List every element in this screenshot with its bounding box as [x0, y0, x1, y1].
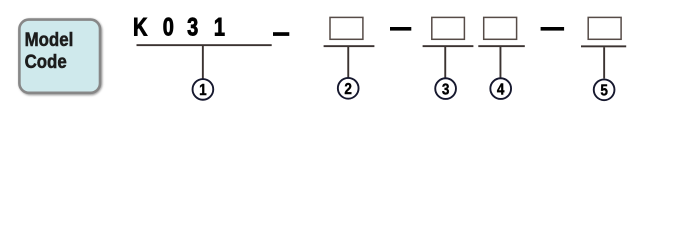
field box 2: [330, 17, 363, 39]
circled number 5: [594, 79, 615, 100]
svg-text:3: 3: [442, 81, 450, 98]
svg-text:5: 5: [600, 83, 608, 100]
underline 1 (K031): [137, 44, 272, 46]
svg-text:K: K: [133, 14, 148, 42]
underline 2: [324, 45, 375, 47]
connector 4: [500, 47, 502, 78]
model-code legend box shadow: [21, 21, 101, 94]
svg-text:2: 2: [344, 81, 352, 98]
connector 5: [603, 47, 605, 78]
underline 3: [423, 45, 474, 47]
model-code legend box: [19, 20, 100, 93]
svg-text:4: 4: [497, 81, 505, 98]
text K031: [133, 14, 225, 42]
svg-text:Code: Code: [25, 50, 67, 73]
svg-text:1: 1: [214, 14, 225, 42]
label Model Code: [25, 28, 74, 73]
circled number 4: [490, 78, 511, 99]
svg-text:0: 0: [163, 14, 174, 42]
field box 4: [484, 17, 517, 39]
connector 1: [202, 46, 204, 79]
connector 2: [347, 47, 349, 78]
svg-text:1: 1: [199, 82, 207, 99]
dash 2: [390, 27, 411, 31]
underline 5: [581, 45, 626, 47]
circled number 1: [193, 79, 214, 100]
connector 3: [444, 47, 446, 78]
svg-text:3: 3: [187, 14, 198, 42]
dash 1: [273, 32, 289, 36]
field box 3: [432, 17, 465, 39]
circled number 3: [435, 78, 456, 99]
field box 5: [588, 17, 621, 39]
dash 3: [541, 27, 565, 31]
circled number 2: [338, 78, 359, 99]
underline 4: [478, 45, 525, 47]
svg-text:Model: Model: [25, 28, 74, 51]
